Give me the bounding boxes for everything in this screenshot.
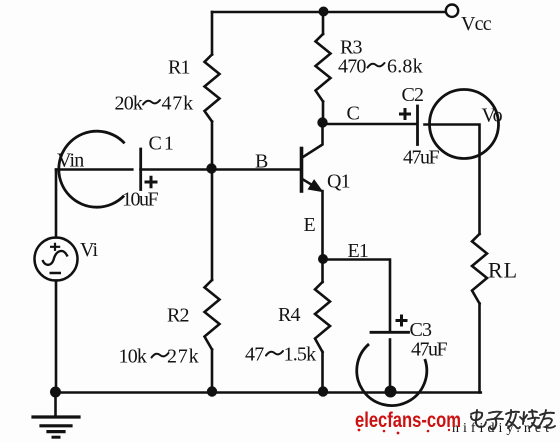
svg-text:470: 470 <box>338 56 366 78</box>
svg-text:B: B <box>255 151 268 173</box>
svg-text:1.5k: 1.5k <box>284 344 317 366</box>
svg-text:Vo: Vo <box>482 105 503 127</box>
svg-text:20k: 20k <box>115 93 143 115</box>
svg-text:Vin: Vin <box>57 150 84 172</box>
svg-text:RL: RL <box>488 258 518 283</box>
svg-text:E: E <box>304 214 316 236</box>
svg-text:Vcc: Vcc <box>461 13 492 35</box>
svg-text:C: C <box>347 103 360 125</box>
svg-text:elecfans-com: elecfans-com <box>355 409 461 432</box>
svg-text:C2: C2 <box>402 84 424 106</box>
svg-text:R1: R1 <box>168 57 190 79</box>
svg-text:47k: 47k <box>162 93 194 115</box>
svg-text:Vi: Vi <box>80 239 98 261</box>
svg-text:C1: C1 <box>149 133 176 155</box>
svg-text:47uF: 47uF <box>411 339 448 361</box>
svg-text:27k: 27k <box>167 346 199 368</box>
svg-text:R2: R2 <box>167 305 189 327</box>
svg-text:6.8k: 6.8k <box>387 56 423 78</box>
svg-text:10k: 10k <box>119 346 147 368</box>
svg-text:E1: E1 <box>348 240 369 262</box>
svg-text:10uF: 10uF <box>122 189 159 211</box>
svg-text:47uF: 47uF <box>403 147 440 169</box>
svg-text:Q1: Q1 <box>327 171 350 193</box>
svg-text:47: 47 <box>245 344 264 366</box>
svg-text:R4: R4 <box>278 304 301 326</box>
